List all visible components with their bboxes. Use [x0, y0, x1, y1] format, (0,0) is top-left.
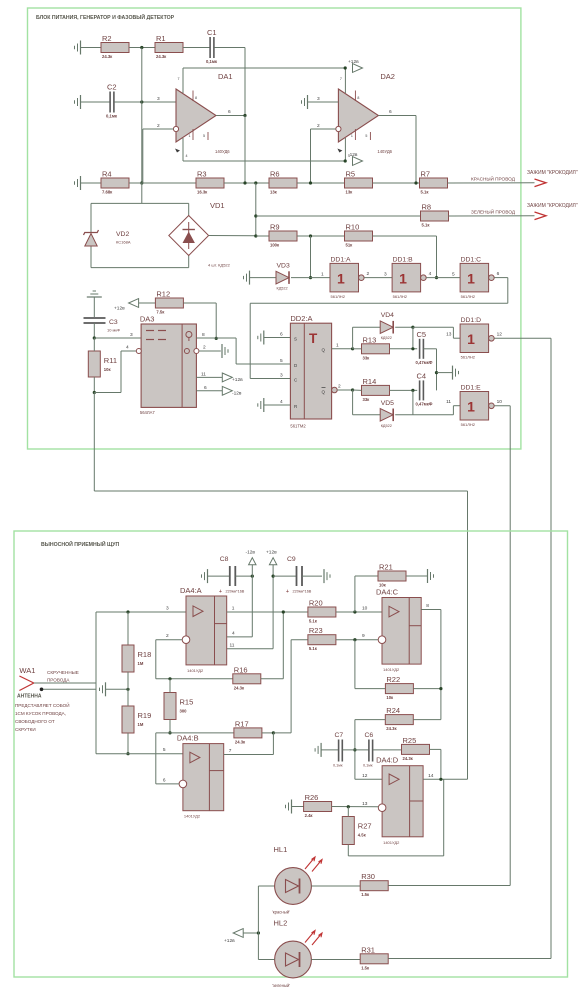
wire [183, 47, 210, 49]
svg-text:561ЛН2: 561ЛН2 [331, 294, 346, 299]
wire [440, 610, 442, 720]
wire [227, 636, 253, 638]
svg-text:R19: R19 [138, 711, 152, 720]
pin4 label DA3 [126, 345, 129, 351]
wire [347, 845, 349, 856]
wire [352, 390, 354, 415]
pin3 label DD2 [280, 373, 283, 379]
pin2 label DA3 [203, 345, 206, 351]
twisted pair note [47, 670, 79, 683]
wire [141, 183, 143, 203]
wire [310, 236, 312, 278]
svg-text:HL1: HL1 [274, 845, 288, 854]
pin3 label [384, 272, 387, 278]
wire [291, 277, 330, 279]
wire [227, 648, 273, 650]
wire [430, 748, 441, 750]
svg-text:5: 5 [203, 134, 205, 138]
+12 rail [183, 67, 345, 69]
svg-text:2: 2 [166, 633, 169, 639]
-12 arrow DA3 [222, 386, 242, 396]
wire [388, 885, 510, 887]
junction [168, 731, 171, 734]
wire [127, 672, 129, 689]
wire [235, 338, 237, 364]
+12 arrow DA3 [222, 373, 243, 383]
wire [139, 302, 156, 304]
wire [388, 958, 551, 960]
resistor R4 [101, 170, 129, 195]
svg-text:КД522: КД522 [381, 336, 392, 340]
pin12 wire [355, 778, 382, 780]
svg-text:6: 6 [163, 777, 166, 783]
svg-text:4: 4 [232, 631, 235, 637]
svg-text:DA3: DA3 [140, 315, 155, 324]
svg-text:R21: R21 [379, 563, 393, 572]
wire [406, 575, 428, 577]
pin 6 label DA2 [389, 109, 392, 115]
inverter DD1:E [446, 385, 502, 428]
svg-text:R14: R14 [363, 377, 377, 386]
wire [413, 326, 454, 328]
svg-text:R20: R20 [309, 599, 323, 608]
wire [352, 327, 354, 349]
svg-text:5.1к: 5.1к [421, 190, 430, 195]
svg-text:-12в: -12в [232, 391, 242, 397]
wire [308, 101, 339, 103]
wire [81, 101, 111, 103]
resistor R10 [345, 223, 373, 248]
svg-text:9: 9 [362, 633, 365, 639]
long wire right [550, 338, 552, 958]
svg-text:C7: C7 [335, 732, 344, 739]
inverter DD1:D [446, 317, 502, 360]
wire [336, 639, 379, 641]
junction [254, 214, 257, 217]
svg-text:11: 11 [230, 643, 235, 649]
svg-text:S: S [294, 337, 297, 342]
wire [290, 640, 292, 733]
wire [311, 959, 360, 961]
pin5 wire [96, 753, 183, 755]
svg-text:2: 2 [157, 123, 160, 129]
svg-text:C2: C2 [107, 83, 117, 92]
capacitor C3 [84, 318, 121, 333]
junction [411, 347, 414, 350]
label croc clip 2 [527, 203, 578, 209]
wire [155, 733, 157, 784]
bottom box title [41, 540, 120, 548]
svg-text:R9: R9 [270, 223, 280, 232]
ground G7 [258, 398, 264, 412]
op-amp DA4:C [362, 588, 429, 673]
wire [494, 405, 510, 407]
wire [413, 414, 454, 416]
wire [91, 202, 189, 204]
junction [140, 46, 143, 49]
wire [141, 48, 143, 184]
wire pin2 DA2 [311, 128, 336, 130]
svg-text:DA4:B: DA4:B [177, 734, 199, 743]
wire [436, 349, 438, 391]
svg-text:T: T [309, 331, 318, 346]
pin2 label [338, 384, 341, 390]
Qb wire [337, 389, 352, 391]
junction [126, 610, 129, 613]
wire [94, 392, 121, 394]
svg-text:R18: R18 [138, 650, 152, 659]
+12 supply arrow [348, 59, 363, 72]
junction [411, 389, 414, 392]
svg-text:10к: 10к [386, 695, 394, 700]
ground G6 [258, 331, 264, 345]
svg-text:10: 10 [362, 606, 368, 612]
wire [129, 47, 155, 49]
pin2 wire [156, 639, 182, 641]
wire [244, 48, 246, 116]
wire [209, 235, 256, 237]
svg-text:2: 2 [203, 345, 206, 351]
+12 arrow [266, 550, 277, 565]
resistor R3 [196, 170, 224, 195]
inverter DD1:C [460, 256, 500, 299]
svg-text:1401УД2: 1401УД2 [383, 667, 400, 672]
svg-text:-12в: -12в [246, 550, 256, 556]
wire [121, 350, 136, 352]
wire [273, 575, 296, 577]
wire [354, 576, 356, 612]
svg-text:C3: C3 [109, 319, 118, 326]
junction [351, 347, 354, 350]
wire [183, 302, 216, 304]
svg-text:0,47мкФ: 0,47мкФ [416, 401, 433, 406]
diode VD3 [276, 263, 290, 291]
wire [156, 678, 233, 680]
svg-text:7: 7 [340, 77, 342, 81]
wire [196, 337, 216, 339]
wire [216, 337, 236, 339]
ground C8 [202, 569, 208, 583]
ground C9 [324, 569, 330, 583]
svg-text:1.5к: 1.5к [361, 965, 370, 970]
svg-text:7: 7 [229, 748, 232, 754]
svg-text:ЗАЖИМ "КРОКОДИЛ": ЗАЖИМ "КРОКОДИЛ" [527, 203, 578, 209]
wire [297, 235, 345, 237]
op-amp DA4:D [362, 756, 434, 845]
wire [244, 116, 246, 184]
svg-text:1М: 1М [138, 661, 144, 666]
svg-text:1: 1 [467, 399, 475, 415]
svg-text:0,1мк: 0,1мк [333, 764, 343, 768]
svg-text:5.1к: 5.1к [309, 619, 318, 624]
wire [127, 733, 129, 754]
diode VD4 [380, 312, 394, 340]
op-amp DA2 [336, 68, 395, 161]
svg-text:'зеленый': 'зеленый' [272, 983, 290, 988]
junction [309, 234, 312, 237]
svg-text:7.5к: 7.5к [156, 310, 165, 315]
svg-text:8: 8 [195, 96, 197, 100]
resistor R2 [101, 34, 129, 59]
pin11 label DA3 [201, 372, 206, 378]
svg-text:13к: 13к [346, 190, 354, 195]
wire [95, 612, 97, 754]
resistor R7 [420, 170, 448, 195]
out wire [224, 754, 274, 756]
svg-text:C4: C4 [417, 371, 427, 380]
node 3 label [157, 96, 160, 102]
svg-text:0,47мкФ: 0,47мкФ [416, 360, 433, 365]
svg-text:R4: R4 [102, 170, 112, 179]
svg-text:R24: R24 [386, 706, 400, 715]
wire [258, 959, 274, 961]
wire [243, 932, 258, 934]
croc arrow 1 [535, 179, 547, 187]
pin3 wire [96, 611, 186, 613]
resistor R22 [385, 675, 413, 700]
op-amp DA1 [173, 68, 232, 161]
wire [94, 337, 141, 339]
svg-text:ПРЕДСТАВЛЯЕТ СОБОЙ: ПРЕДСТАВЛЯЕТ СОБОЙ [15, 701, 70, 708]
svg-text:VD1: VD1 [210, 201, 225, 210]
junction [309, 181, 312, 184]
resistor R21 [378, 563, 406, 588]
svg-text:10: 10 [497, 399, 503, 405]
wire [297, 182, 345, 184]
svg-text:+12в: +12в [114, 306, 125, 312]
wire [208, 575, 230, 577]
junction [243, 114, 246, 117]
wire [412, 390, 414, 414]
wire [250, 378, 290, 380]
svg-text:5.1к: 5.1к [422, 223, 431, 228]
wire [214, 47, 245, 49]
wire [255, 183, 257, 236]
junction [257, 931, 260, 934]
svg-text:561ЛН2: 561ЛН2 [461, 355, 476, 360]
svg-text:R17: R17 [235, 719, 249, 728]
wire [127, 612, 129, 645]
wire [354, 640, 356, 689]
wire [332, 806, 379, 808]
wire [452, 406, 454, 415]
wire [448, 182, 535, 184]
junction [414, 181, 417, 184]
svg-text:1: 1 [321, 272, 324, 278]
pin6 label DD2 [280, 332, 283, 338]
pin2 label DA1 [157, 123, 160, 129]
svg-text:4 шт. КД522: 4 шт. КД522 [208, 263, 231, 268]
svg-text:БЛОК ПИТАНИЯ, ГЕНЕРАТОР И ФАЗО: БЛОК ПИТАНИЯ, ГЕНЕРАТОР И ФАЗОВЫЙ ДЕТЕКТ… [36, 13, 175, 21]
wire [426, 277, 460, 279]
capacitor C8 [219, 556, 245, 595]
resistor R12 [155, 290, 183, 315]
junction [126, 752, 129, 755]
svg-text:+: + [286, 589, 289, 595]
resistor R19 [122, 706, 151, 733]
svg-text:R31: R31 [361, 945, 375, 954]
wire [353, 389, 362, 391]
wire [169, 679, 171, 693]
svg-text:WA1: WA1 [19, 666, 35, 675]
wire [453, 337, 460, 339]
pin1 label [321, 272, 324, 278]
junction [344, 159, 347, 162]
wire [256, 235, 269, 237]
junction [435, 276, 438, 279]
resistor R18 [122, 645, 151, 672]
svg-text:1: 1 [337, 270, 345, 286]
svg-text:R27: R27 [358, 822, 372, 831]
junction [215, 337, 218, 340]
wire [347, 807, 349, 817]
wire [196, 376, 222, 378]
svg-text:14: 14 [428, 773, 434, 779]
svg-text:3: 3 [317, 96, 320, 102]
svg-text:4: 4 [280, 399, 283, 405]
svg-text:2: 2 [338, 384, 341, 390]
svg-text:DA2: DA2 [380, 72, 395, 81]
junction [272, 575, 275, 578]
wire [93, 338, 95, 351]
wire [395, 414, 413, 416]
resistor R31 [360, 945, 388, 970]
wire [373, 235, 437, 237]
svg-text:'красный': 'красный' [272, 910, 290, 915]
svg-text:7: 7 [178, 77, 180, 81]
wire [355, 688, 386, 690]
svg-text:4: 4 [126, 345, 129, 351]
resistor R11 [88, 351, 117, 377]
svg-text:12: 12 [362, 773, 368, 779]
svg-text:11: 11 [446, 399, 451, 405]
label red wire [471, 175, 516, 182]
top enclosure box [28, 8, 521, 449]
wire [353, 348, 362, 350]
junction [254, 234, 257, 237]
wire [336, 611, 382, 613]
label croc clip 1 [527, 170, 578, 176]
wire [437, 372, 453, 374]
svg-text:+12в: +12в [266, 550, 277, 556]
svg-text:R10: R10 [346, 223, 360, 232]
svg-text:300: 300 [180, 709, 188, 714]
svg-text:3: 3 [166, 606, 169, 612]
long wire bottom [94, 490, 467, 492]
svg-text:1СМ КУСОК ПРОВОДА,: 1СМ КУСОК ПРОВОДА, [15, 711, 66, 716]
svg-text:220мк*16В: 220мк*16В [293, 590, 312, 594]
resistor R16 [233, 665, 261, 690]
svg-text:11: 11 [201, 372, 206, 378]
-12 supply arrow [348, 152, 363, 165]
junction [435, 371, 438, 374]
junction [353, 748, 356, 751]
svg-text:DA1: DA1 [218, 72, 233, 81]
ground G2 [75, 95, 81, 109]
svg-text:DD1:D: DD1:D [461, 317, 481, 324]
resistor R20 [308, 599, 336, 624]
wire [169, 720, 171, 733]
op-amp DA4:B [163, 734, 232, 819]
svg-text:13: 13 [446, 332, 452, 338]
inverter DD1:B [392, 256, 432, 299]
hysteresis wire [348, 855, 443, 857]
wire [273, 732, 291, 734]
ground up C3 [87, 291, 102, 297]
svg-text:0,1мк: 0,1мк [363, 764, 373, 768]
svg-text:24.3к: 24.3к [403, 756, 414, 761]
svg-text:6: 6 [228, 109, 231, 115]
junction [251, 575, 254, 578]
wire [257, 886, 259, 960]
resistor R23 [308, 626, 336, 651]
wire [443, 779, 445, 856]
pin5 label [452, 272, 455, 278]
svg-text:R30: R30 [361, 872, 375, 881]
wire [93, 393, 95, 492]
svg-text:C5: C5 [417, 330, 427, 339]
svg-text:140УД6: 140УД6 [377, 149, 392, 154]
op-amp DA4:A [166, 586, 235, 673]
svg-text:VD3: VD3 [277, 263, 290, 270]
svg-text:СКРУТКИ: СКРУТКИ [15, 727, 36, 732]
svg-text:10 мкФ: 10 мкФ [107, 328, 120, 333]
wire [258, 885, 274, 887]
resistor R13 [362, 335, 390, 360]
svg-text:Q: Q [322, 348, 326, 353]
svg-text:HL2: HL2 [274, 919, 288, 928]
wire [256, 215, 421, 217]
svg-text:+12в: +12в [224, 938, 235, 944]
svg-text:220мк*16В: 220мк*16В [226, 590, 245, 594]
junction [353, 610, 356, 613]
ground G1 [75, 41, 81, 55]
svg-text:+12в: +12в [348, 59, 359, 65]
wire [302, 575, 322, 577]
junction [93, 391, 96, 394]
junction [351, 388, 354, 391]
wire [494, 277, 508, 279]
diode VD5 [380, 400, 394, 428]
junction [168, 677, 171, 680]
antenna lead [34, 682, 96, 684]
wire [249, 303, 251, 378]
label green wire [471, 208, 516, 215]
svg-text:R6: R6 [270, 170, 280, 179]
svg-text:561ЛН2: 561ЛН2 [393, 294, 408, 299]
svg-text:АНТЕННА: АНТЕННА [17, 694, 42, 700]
wire [373, 182, 420, 184]
junction [272, 731, 275, 734]
wire [353, 414, 381, 416]
svg-text:R7: R7 [421, 170, 431, 179]
capacitor C5 [416, 330, 433, 365]
svg-text:8: 8 [426, 603, 429, 609]
svg-text:+12в: +12в [232, 377, 243, 383]
wire [114, 101, 176, 103]
svg-text:DA4:D: DA4:D [376, 756, 399, 765]
svg-text:DA4:A: DA4:A [180, 586, 202, 595]
wire [395, 326, 413, 328]
svg-text:R13: R13 [363, 335, 377, 344]
svg-text:1: 1 [467, 331, 475, 347]
svg-text:8: 8 [202, 332, 205, 338]
svg-text:DD1:C: DD1:C [461, 256, 481, 263]
wire [291, 639, 308, 641]
resistor R17 [234, 719, 262, 744]
-12 arrow [246, 550, 257, 565]
svg-text:4: 4 [186, 154, 188, 158]
